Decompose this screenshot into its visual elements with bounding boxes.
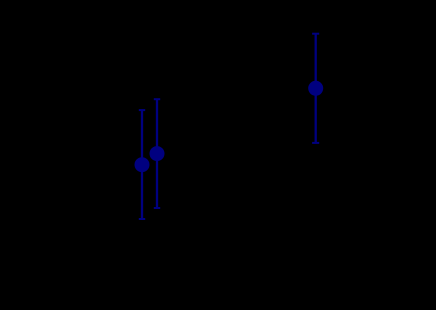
- error bar 2 (middle point): [154, 99, 160, 208]
- cap bottom 3: [312, 142, 319, 144]
- error bar 3 (right point): [312, 34, 319, 143]
- cap top 3: [312, 33, 319, 35]
- cap bottom 1: [139, 218, 145, 220]
- cap top 1: [139, 109, 145, 111]
- wire: [315, 34, 317, 143]
- cap top 2: [154, 98, 160, 100]
- point marker 1: [135, 157, 150, 172]
- wire: [141, 110, 143, 219]
- point marker 2: [150, 146, 165, 161]
- error bar 1 (left point): [139, 110, 145, 219]
- cap bottom 2: [154, 207, 160, 209]
- point marker 3: [308, 81, 323, 96]
- wire: [156, 99, 158, 208]
